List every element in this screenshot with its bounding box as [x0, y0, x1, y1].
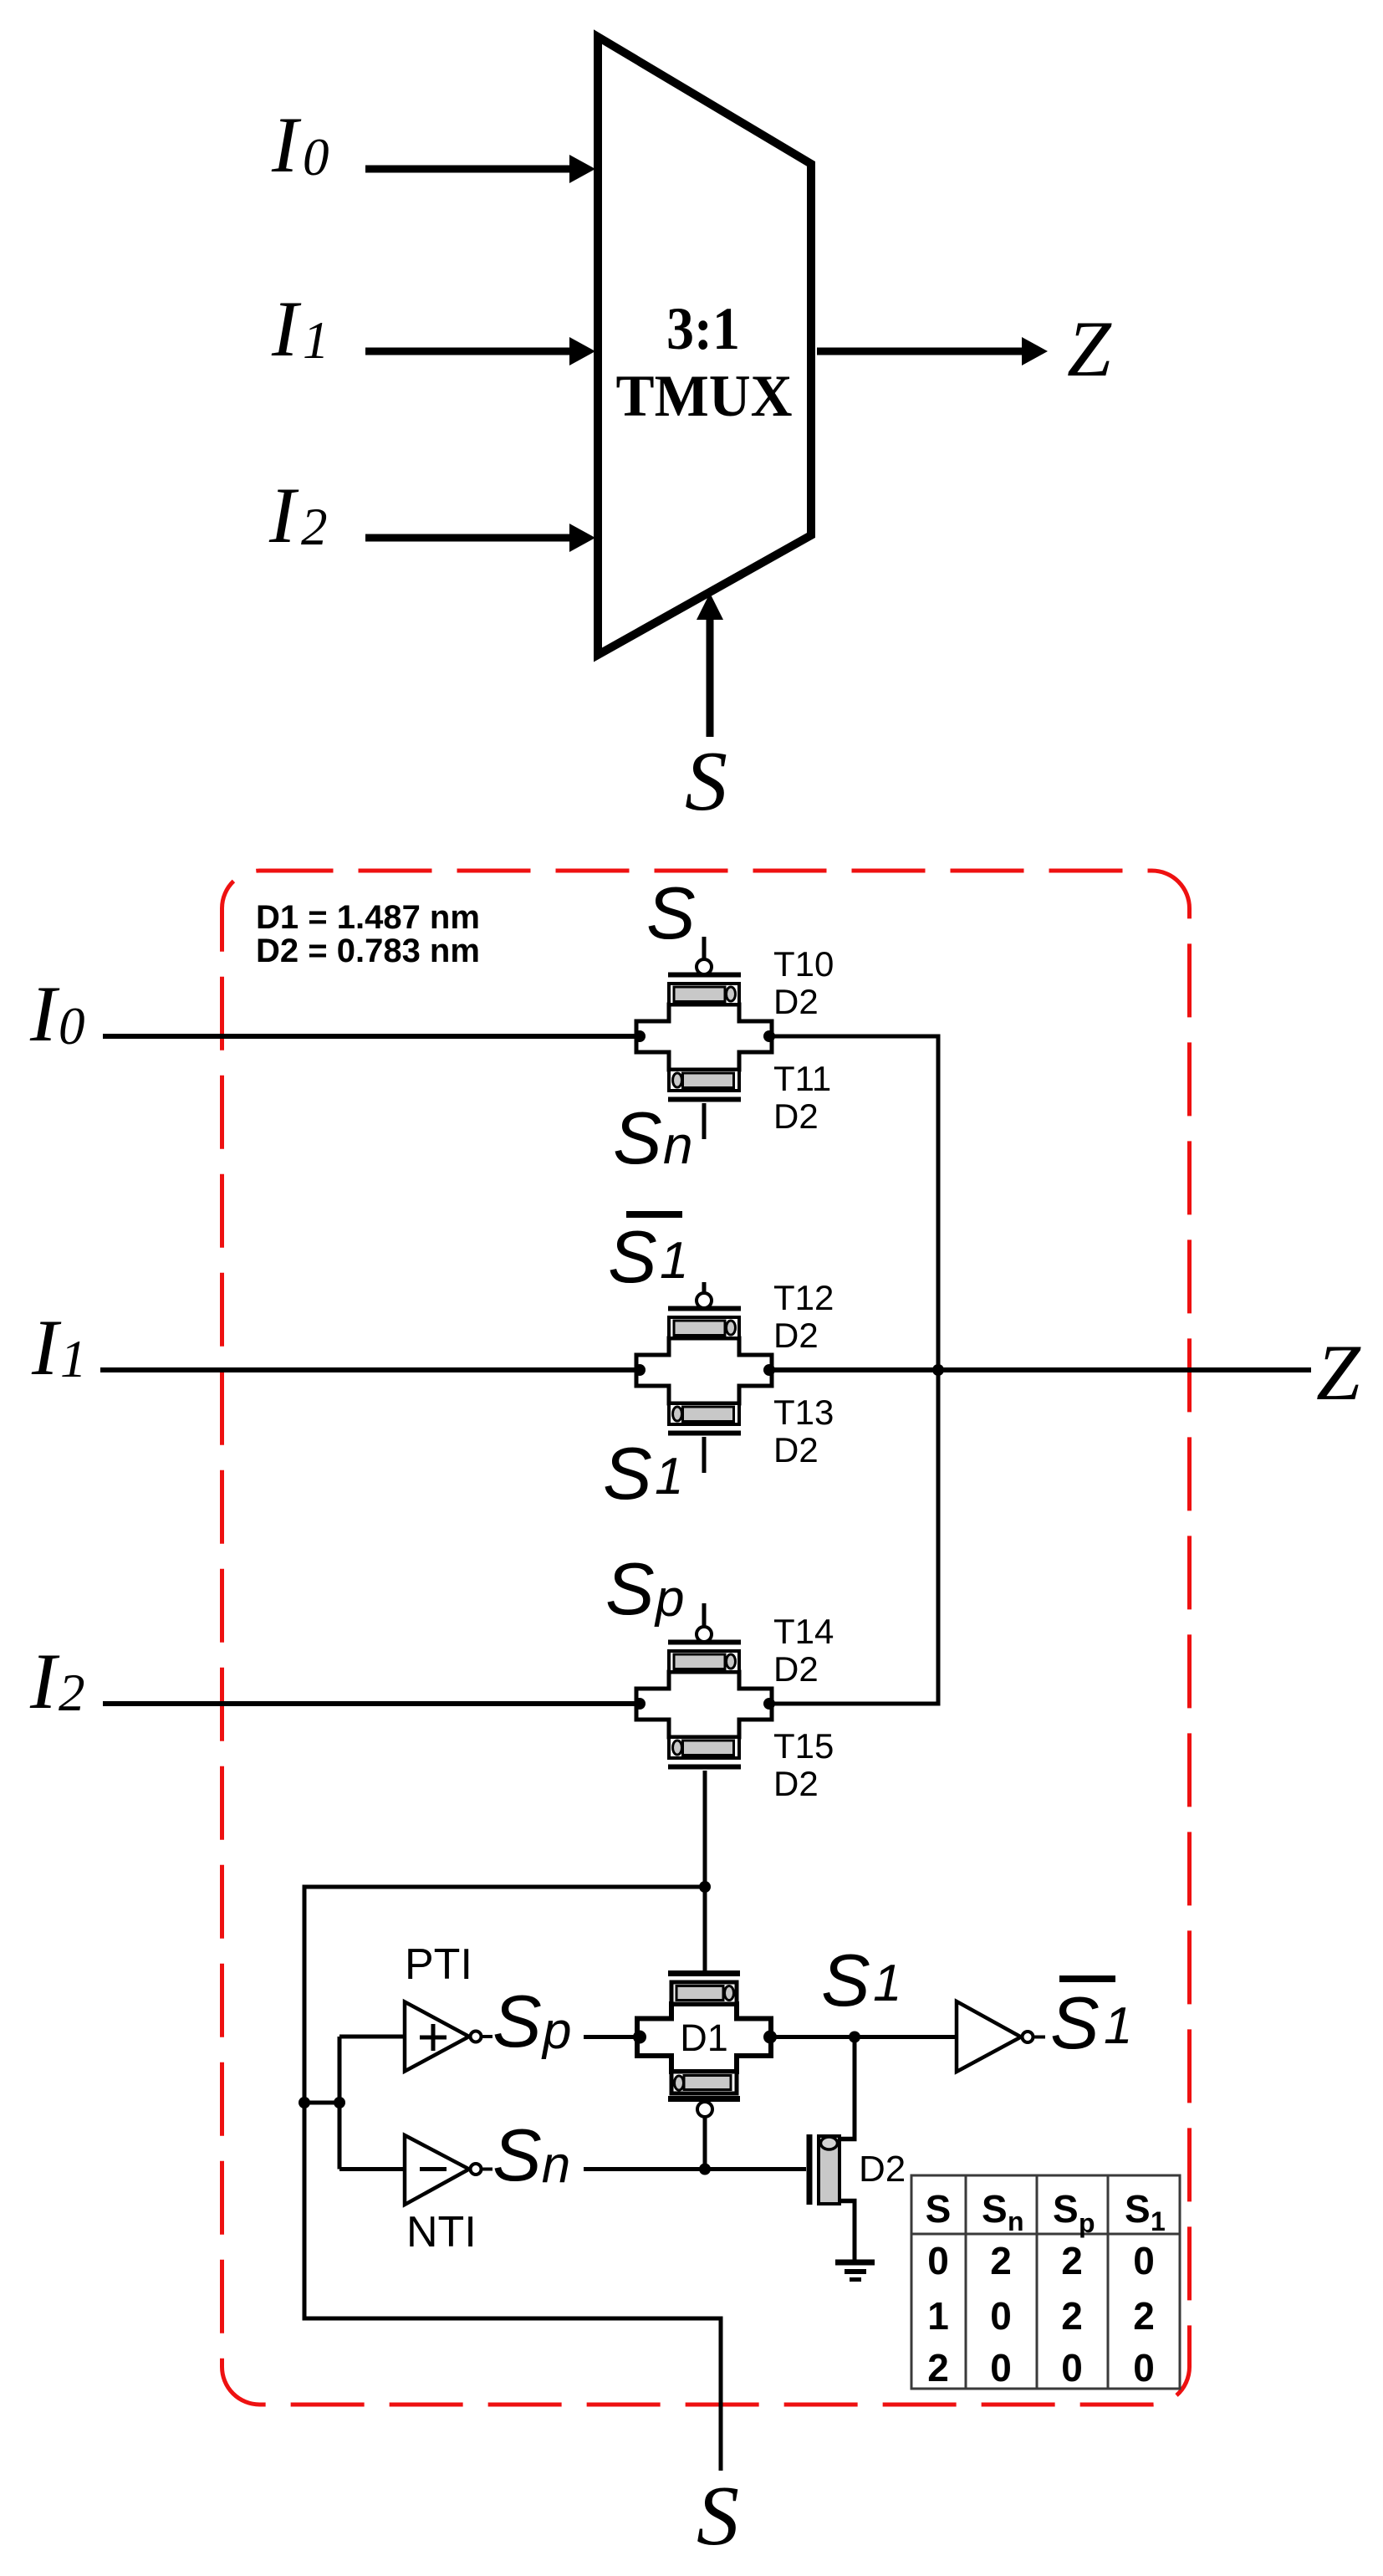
svg-text:D2: D2	[859, 2149, 906, 2190]
svg-text:0: 0	[990, 2346, 1012, 2389]
node Sn gate label below T11	[613, 1096, 693, 1179]
T12 gate bubble	[697, 1293, 712, 1308]
svg-text:D1: D1	[680, 2016, 728, 2059]
svg-text:p: p	[541, 2002, 571, 2060]
label D2 of T10	[773, 982, 819, 1021]
svg-text:T10: T10	[773, 944, 834, 984]
svg-text:2: 2	[1133, 2294, 1155, 2338]
label T10	[773, 944, 834, 984]
svg-text:T11: T11	[773, 1059, 831, 1098]
svg-text:S: S	[646, 871, 696, 954]
wire I2 input	[103, 1701, 636, 1706]
truth table S Sn Sp S1	[911, 2175, 1180, 2389]
junction T12 right	[763, 1364, 775, 1376]
wire D2 source to ground	[853, 2201, 857, 2263]
wire I0 input	[103, 1034, 636, 1039]
junction S to D1/T15 gates	[699, 1881, 711, 1893]
svg-text:0: 0	[303, 128, 329, 187]
wire S left vertical	[303, 1885, 307, 2321]
wire Z output arrow (top figure)	[817, 337, 1048, 365]
svg-text:S: S	[1125, 2187, 1151, 2231]
svg-text:1: 1	[660, 1232, 688, 1290]
annotation D2 = 0.783 nm	[256, 933, 480, 969]
wire Sp to D1	[584, 2035, 637, 2039]
label T11	[773, 1059, 831, 1098]
PTI output bubble	[471, 2032, 482, 2042]
annotation D1 = 1.487 nm	[256, 899, 480, 936]
svg-text:n: n	[1008, 2206, 1024, 2236]
red dashed boundary box	[222, 871, 1190, 2405]
junction inverter input tee	[334, 2097, 345, 2108]
table row 2: 1 0 2 2	[927, 2294, 1155, 2338]
svg-text:S: S	[1053, 2187, 1079, 2231]
mux label TMUX	[616, 364, 793, 429]
table row 1: 0 2 2 0	[927, 2239, 1155, 2282]
svg-text:0: 0	[1133, 2346, 1155, 2389]
svg-text:S: S	[492, 1980, 542, 2062]
transmission gate D1 body	[637, 1974, 771, 2099]
node S1bar output label	[1050, 1979, 1132, 2064]
label T13	[773, 1393, 834, 1432]
junction D1 left	[633, 2031, 646, 2044]
svg-text:I: I	[268, 471, 299, 560]
svg-text:1: 1	[873, 1955, 901, 2012]
node Z label (schematic)	[1316, 1328, 1361, 1417]
D1 bottom gate bubble	[697, 2102, 712, 2117]
svg-text:S: S	[613, 1096, 662, 1179]
svg-text:T14: T14	[773, 1612, 834, 1651]
svg-text:S: S	[821, 1939, 870, 2021]
transmission gate T10/T11 body	[636, 975, 772, 1100]
wire NTI output stub	[482, 2168, 492, 2171]
svg-text:S: S	[608, 1215, 657, 1298]
svg-text:S: S	[697, 2469, 739, 2563]
wire D1 top gate lead from S junction	[703, 1887, 707, 1974]
table row 3: 2 0 0 0	[927, 2346, 1155, 2389]
svg-text:2: 2	[59, 1664, 85, 1722]
svg-text:1: 1	[303, 311, 329, 370]
svg-text:I: I	[31, 1303, 62, 1392]
mux trapezoid 3:1 TMUX	[598, 37, 811, 655]
svg-text:2: 2	[990, 2239, 1012, 2282]
svg-text:p: p	[1079, 2208, 1095, 2238]
node I1 label (schematic)	[31, 1303, 87, 1392]
op-amp PTI inverter triangle	[405, 2002, 469, 2072]
wire T14 output to merge bus	[769, 1702, 941, 1706]
junction T10 right	[763, 1030, 775, 1042]
junction D1 right	[763, 2031, 777, 2044]
svg-text:3:1: 3:1	[666, 295, 740, 362]
svg-text:TMUX: TMUX	[616, 364, 793, 429]
svg-text:S: S	[982, 2187, 1008, 2231]
svg-text:S: S	[603, 1432, 652, 1515]
label D2 of T13	[773, 1430, 819, 1469]
svg-text:I: I	[29, 1637, 60, 1725]
T10 gate bubble	[697, 959, 712, 974]
svg-text:PTI: PTI	[405, 1940, 472, 1989]
svg-text:0: 0	[927, 2239, 949, 2282]
node I1 label (top figure)	[271, 284, 329, 373]
svg-text:2: 2	[1061, 2294, 1083, 2338]
svg-text:T15: T15	[773, 1726, 834, 1766]
node S1 gate label below T13	[603, 1432, 683, 1515]
label T15	[773, 1726, 834, 1766]
svg-text:2: 2	[927, 2346, 949, 2389]
wire Sn to D2 gate	[584, 2167, 806, 2171]
wire S1 from D1 to inverter	[770, 2035, 957, 2039]
S1 inverter output bubble	[1023, 2032, 1033, 2042]
wire S tap link	[304, 2101, 339, 2105]
node S1 label above wire	[821, 1939, 901, 2021]
node I0 label (top figure)	[271, 100, 329, 189]
svg-text:D1 = 1.487 nm: D1 = 1.487 nm	[256, 899, 480, 936]
node Sp gate label above T14	[605, 1547, 684, 1630]
svg-text:I: I	[271, 284, 302, 373]
svg-text:p: p	[654, 1570, 684, 1628]
junction Sn at D1 gate	[699, 2164, 711, 2175]
junction T10 left	[634, 1030, 646, 1042]
svg-text:1: 1	[60, 1330, 87, 1388]
ground symbol	[835, 2262, 875, 2280]
node Z label (top figure)	[1067, 304, 1112, 393]
svg-text:1: 1	[1104, 1997, 1132, 2055]
wire T15 gate lead down to S junction	[703, 1771, 707, 1889]
svg-text:0: 0	[59, 997, 85, 1055]
wire PTI output stub	[482, 2035, 492, 2038]
table header Sp	[1053, 2187, 1095, 2238]
node I2 label (schematic)	[29, 1637, 85, 1725]
svg-text:D2: D2	[773, 982, 819, 1021]
svg-text:S: S	[605, 1547, 655, 1630]
junction T12 left	[634, 1364, 646, 1376]
junction T14 right	[763, 1698, 775, 1710]
label D2 of T14	[773, 1649, 819, 1689]
svg-text:D2: D2	[773, 1430, 819, 1469]
T14 gate bubble	[697, 1627, 712, 1642]
wire T10 gate lead	[702, 937, 707, 959]
svg-text:D2 = 0.783 nm: D2 = 0.783 nm	[256, 933, 480, 969]
table header S	[926, 2187, 952, 2231]
svg-text:D2: D2	[773, 1764, 819, 1803]
label D2 of T12	[773, 1316, 819, 1355]
svg-text:T12: T12	[773, 1278, 834, 1317]
svg-text:NTI: NTI	[406, 2208, 477, 2257]
table header S1	[1125, 2187, 1166, 2236]
svg-text:D2: D2	[773, 1316, 819, 1355]
table header Sn	[982, 2187, 1024, 2236]
svg-text:D2: D2	[773, 1096, 819, 1136]
svg-text:S: S	[1050, 1981, 1100, 2064]
label D1 inside gate	[680, 2016, 728, 2059]
op-amp S1 inverter triangle	[957, 2001, 1021, 2072]
wire T12 gate lead	[702, 1282, 707, 1293]
node I0 label (schematic)	[29, 969, 85, 1058]
svg-text:S: S	[926, 2187, 952, 2231]
NTI output bubble	[471, 2164, 482, 2175]
wire NTI input	[339, 2167, 405, 2171]
wire PTI input	[339, 2035, 405, 2039]
label T12	[773, 1278, 834, 1317]
label PTI	[405, 1940, 472, 1989]
wire I1 input arrow (top figure)	[365, 337, 595, 365]
node I2 label (top figure)	[268, 471, 328, 560]
wire S select arrow (top figure)	[697, 593, 723, 737]
op-amp NTI inverter triangle	[405, 2135, 469, 2205]
node S input label (schematic)	[697, 2469, 739, 2563]
label D2 of T11	[773, 1096, 819, 1136]
wire merge bus vertical	[936, 1035, 941, 1706]
junction merge bus on Z line	[932, 1364, 944, 1376]
svg-text:0: 0	[990, 2294, 1012, 2338]
wire Z output line	[769, 1367, 1311, 1372]
svg-text:2: 2	[301, 498, 328, 556]
transmission gate T14/T15 body	[636, 1643, 772, 1767]
svg-text:Z: Z	[1316, 1328, 1361, 1417]
wire I1 input	[100, 1367, 636, 1372]
wire S horizontal to gates junction	[304, 1885, 705, 1889]
wire I2 input arrow (top figure)	[365, 524, 595, 552]
svg-text:2: 2	[1061, 2239, 1083, 2282]
node S gate label above T10	[646, 871, 696, 954]
svg-text:I: I	[271, 100, 302, 189]
node Sp label (control)	[492, 1980, 571, 2062]
svg-text:1: 1	[655, 1448, 683, 1505]
wire S1 down to D2 drain	[853, 2037, 857, 2142]
wire S input vertical	[719, 2317, 723, 2471]
wire I0 input arrow (top figure)	[365, 155, 595, 183]
svg-text:D2: D2	[773, 1649, 819, 1689]
transistor D2 (CNTFET to ground)	[809, 2134, 857, 2205]
svg-text:Z: Z	[1067, 304, 1112, 393]
svg-text:1: 1	[1151, 2206, 1166, 2236]
mux label 3:1	[666, 295, 740, 362]
wire T14 gate lead	[702, 1603, 707, 1627]
wire D1 bottom gate lead	[703, 2117, 707, 2170]
svg-text:n: n	[663, 1115, 693, 1175]
wire T10 output to merge bus	[769, 1035, 941, 1039]
svg-text:0: 0	[1061, 2346, 1083, 2389]
wire S1bar output stub	[1033, 2036, 1045, 2039]
wire T13 gate lead	[702, 1437, 707, 1473]
svg-text:1: 1	[927, 2294, 949, 2338]
svg-text:0: 0	[1133, 2239, 1155, 2282]
label NTI	[406, 2208, 477, 2257]
label D2 of T15	[773, 1764, 819, 1803]
transmission gate T12/T13 body	[636, 1309, 772, 1434]
label D2 transistor	[859, 2149, 906, 2190]
wire T11 gate lead	[702, 1103, 707, 1139]
node S label (top figure)	[685, 734, 727, 829]
node S1bar gate label above T12	[608, 1214, 688, 1298]
junction T14 left	[634, 1698, 646, 1710]
wire inverter input vertical	[338, 2037, 342, 2170]
junction S tap left	[299, 2097, 310, 2108]
svg-text:S: S	[685, 734, 727, 829]
node Sn label (control)	[492, 2113, 570, 2196]
label T14	[773, 1612, 834, 1651]
svg-text:T13: T13	[773, 1393, 834, 1432]
wire S bottom horizontal	[304, 2317, 721, 2321]
junction S1 to D2	[849, 2032, 860, 2043]
svg-text:I: I	[29, 969, 60, 1058]
